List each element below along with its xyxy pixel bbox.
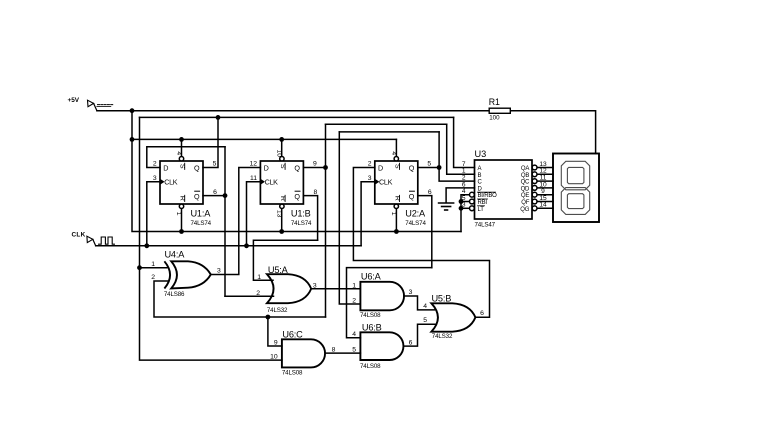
wire QbarA to U5:A pin 2 bbox=[225, 295, 274, 297]
U3 control input bubble bbox=[470, 199, 475, 204]
wire QbarC run to U6:B pin 4 bbox=[347, 268, 432, 338]
wire QB riser bbox=[325, 124, 327, 167]
wire CLK rail bbox=[96, 245, 361, 247]
svg-text:3: 3 bbox=[462, 202, 466, 209]
svg-text:1: 1 bbox=[175, 212, 182, 216]
D flip-flop U1:A (74LS74) bbox=[153, 151, 217, 226]
resistor R1 bbox=[489, 97, 511, 122]
wire QC drop to U6:A pin 2 bbox=[339, 132, 360, 304]
wire S pin drop U1:B bbox=[281, 139, 283, 156]
wire U5:A out to U6:A pin 1 bbox=[311, 288, 360, 290]
OR gate U5:B (74LS32) bbox=[423, 293, 484, 340]
wire R pin riser U1:B bbox=[281, 209, 283, 232]
svg-text:U6:A: U6:A bbox=[361, 271, 382, 281]
U1:A S preset bubble bbox=[179, 157, 183, 161]
junction U1:A Qbar node bbox=[223, 193, 228, 198]
wire U2:A Qbar stub bbox=[418, 196, 432, 268]
wire R pin riser U1:A bbox=[181, 209, 183, 232]
svg-text:3: 3 bbox=[409, 289, 413, 296]
U1:B clock edge triangle bbox=[260, 179, 265, 185]
svg-text:LT: LT bbox=[478, 207, 485, 213]
wire U3 LT stub bbox=[461, 207, 469, 209]
wire U3 QD to display bbox=[537, 187, 553, 189]
U3 control input bubble bbox=[470, 192, 475, 197]
svg-text:12: 12 bbox=[250, 161, 258, 168]
wire QA left drop to U6:C pin 10 bbox=[140, 117, 282, 360]
wire +5V drop to R reset rail bbox=[132, 111, 461, 232]
svg-text:U4:A: U4:A bbox=[165, 249, 186, 259]
wire U3 BI/RBO feed bbox=[461, 195, 469, 232]
svg-text:U5:A: U5:A bbox=[268, 265, 289, 275]
svg-text:Q: Q bbox=[409, 163, 415, 172]
OR gate U5:A (74LS32) bbox=[256, 265, 317, 314]
svg-text:QA: QA bbox=[521, 166, 529, 172]
svg-text:74LS74: 74LS74 bbox=[291, 220, 312, 227]
wire QB down drop bbox=[325, 168, 327, 318]
display body box bbox=[553, 154, 599, 223]
U2:A S preset bubble bbox=[394, 157, 398, 161]
svg-text:4: 4 bbox=[175, 151, 182, 155]
svg-text:74LS32: 74LS32 bbox=[267, 307, 288, 314]
wire U3 QB to display bbox=[537, 173, 553, 175]
svg-text:74LS08: 74LS08 bbox=[360, 312, 381, 319]
AND gate U6:B (74LS08) bbox=[352, 322, 412, 370]
R1 body bbox=[489, 108, 510, 113]
wire U3 QA to display bbox=[537, 167, 553, 169]
svg-text:QG: QG bbox=[520, 207, 529, 213]
wire U1:A Qbar stub bbox=[203, 195, 225, 197]
U5:A gate body bbox=[267, 274, 311, 303]
svg-text:U6:B: U6:B bbox=[362, 322, 382, 332]
svg-text:3: 3 bbox=[217, 268, 221, 275]
wire S pin drop U2:A bbox=[395, 139, 397, 156]
svg-text:5: 5 bbox=[427, 161, 431, 168]
svg-text:U3: U3 bbox=[475, 149, 487, 159]
svg-text:1: 1 bbox=[352, 282, 356, 289]
XOR gate U4:A (74LS86) bbox=[151, 249, 221, 298]
junction S rail tap bbox=[130, 137, 135, 142]
U1:B R reset bubble bbox=[280, 204, 284, 208]
wire U3 QG to display bbox=[537, 207, 553, 209]
svg-text:U2:A: U2:A bbox=[405, 208, 426, 218]
BCD to 7-segment decoder U3 (74LS47) bbox=[462, 149, 547, 228]
svg-text:8: 8 bbox=[332, 347, 336, 354]
svg-text:4: 4 bbox=[352, 331, 356, 338]
junction CLK / U1:A bbox=[144, 243, 149, 248]
U3 control input bubble bbox=[470, 206, 475, 211]
junction U2:A Q node bbox=[437, 165, 442, 170]
wire U3 QF to display bbox=[537, 201, 553, 203]
svg-text:U1:B: U1:B bbox=[291, 208, 311, 218]
svg-text:2: 2 bbox=[151, 274, 155, 281]
wire QbarB run to U5:A pin 1 bbox=[253, 240, 317, 280]
svg-text:CLK: CLK bbox=[265, 178, 279, 187]
U1:A body box bbox=[160, 161, 203, 204]
wire U6:B out to U5:B pin 5 bbox=[404, 324, 436, 346]
wire QbarA top to U1:A D pin 2 bbox=[147, 147, 225, 168]
svg-text:74LS08: 74LS08 bbox=[360, 363, 381, 370]
svg-text:D: D bbox=[378, 163, 383, 172]
svg-text:2: 2 bbox=[256, 290, 260, 297]
U4:A gate body bbox=[171, 261, 211, 288]
wire U1:B Q stub bbox=[304, 167, 326, 169]
svg-text:2: 2 bbox=[368, 161, 372, 168]
svg-text:74LS74: 74LS74 bbox=[405, 220, 426, 227]
svg-text:D: D bbox=[478, 186, 483, 192]
U1:B body box bbox=[260, 161, 303, 204]
svg-text:Q: Q bbox=[294, 163, 300, 172]
svg-text:13: 13 bbox=[276, 210, 283, 218]
junction U1:A S pin bbox=[179, 137, 184, 142]
U1:A R reset bubble bbox=[179, 204, 183, 208]
display digit 8 segments bbox=[561, 161, 589, 190]
svg-text:D: D bbox=[163, 163, 168, 172]
U3 QC output bubble bbox=[532, 179, 537, 184]
svg-text:Q: Q bbox=[294, 192, 300, 201]
svg-text:3: 3 bbox=[153, 175, 157, 182]
svg-text:100: 100 bbox=[489, 115, 500, 122]
svg-text:5: 5 bbox=[423, 317, 427, 324]
wire U3 D pin 6 to ground bbox=[446, 188, 474, 202]
svg-text:2: 2 bbox=[153, 161, 157, 168]
svg-text:74LS74: 74LS74 bbox=[191, 220, 212, 227]
U3 QE output bubble bbox=[532, 192, 537, 197]
svg-text:R1: R1 bbox=[489, 97, 500, 107]
svg-text:6: 6 bbox=[409, 339, 413, 346]
wire QA rail bbox=[140, 116, 454, 118]
svg-text:Q: Q bbox=[409, 192, 415, 201]
svg-text:6: 6 bbox=[480, 310, 484, 317]
svg-text:6: 6 bbox=[428, 189, 432, 196]
U3 QG output bubble bbox=[532, 206, 537, 211]
wire QA to U3 A pin 7 bbox=[454, 117, 475, 167]
svg-text:BI/RBO: BI/RBO bbox=[478, 193, 498, 199]
wire CLK to U1:A pin 3 bbox=[147, 182, 160, 246]
junction U2:A R pin bbox=[394, 229, 399, 234]
junction QA / U4:A pin 1 bbox=[137, 265, 142, 270]
svg-text:3: 3 bbox=[313, 282, 317, 289]
AND gate U6:C (74LS08) bbox=[270, 329, 335, 376]
wire U2:A Q stub bbox=[418, 167, 439, 169]
wire QA branch to U4:A pin 1 bbox=[140, 267, 168, 269]
U3 QD output bubble bbox=[532, 186, 537, 191]
svg-text:14: 14 bbox=[539, 202, 547, 209]
wire U5:B out feedback to U2:A D pin 2 bbox=[353, 168, 489, 318]
wire CLK to U2:A pin 3 bbox=[361, 182, 375, 246]
junction U1:B R pin bbox=[279, 229, 284, 234]
wire U6:C out to U6:B pin 5 bbox=[325, 352, 360, 354]
svg-text:QB: QB bbox=[521, 173, 529, 179]
U1:B S preset bubble bbox=[280, 157, 284, 161]
wire U1:A Q to QA rail bbox=[203, 117, 218, 167]
svg-text:74LS47: 74LS47 bbox=[475, 222, 496, 229]
svg-text:74LS32: 74LS32 bbox=[432, 333, 453, 340]
wire S pin drop U1:A bbox=[181, 139, 183, 156]
junction CLK / U1:B bbox=[244, 243, 249, 248]
svg-text:RBI: RBI bbox=[478, 200, 488, 206]
wire QC rail bbox=[339, 131, 439, 133]
svg-text:74LS08: 74LS08 bbox=[282, 369, 303, 376]
junction U1:B Q node bbox=[323, 165, 328, 170]
svg-text:+5V: +5V bbox=[68, 97, 80, 104]
svg-text:A: A bbox=[478, 166, 482, 172]
svg-text:Q: Q bbox=[194, 163, 200, 172]
svg-text:1: 1 bbox=[390, 212, 397, 216]
U2:A body box bbox=[375, 161, 418, 204]
svg-text:U5:B: U5:B bbox=[432, 293, 452, 303]
U2:A R reset bubble bbox=[394, 204, 398, 208]
AND gate U6:A (74LS08) bbox=[352, 271, 412, 319]
svg-text:CLK: CLK bbox=[72, 232, 86, 239]
U3 QF output bubble bbox=[532, 199, 537, 204]
svg-text:10: 10 bbox=[276, 150, 283, 158]
svg-text:11: 11 bbox=[250, 175, 257, 182]
svg-text:4: 4 bbox=[423, 303, 427, 310]
junction U3 RBI pin 5 bbox=[459, 199, 464, 204]
svg-text:QE: QE bbox=[521, 193, 529, 199]
U2:A clock edge triangle bbox=[375, 179, 380, 185]
7-segment display bbox=[553, 154, 599, 223]
svg-text:10: 10 bbox=[270, 354, 278, 361]
U6:B gate body bbox=[360, 332, 403, 360]
svg-text:74LS86: 74LS86 bbox=[164, 291, 185, 298]
svg-text:U1:A: U1:A bbox=[191, 208, 212, 218]
ground bbox=[439, 203, 454, 210]
wire QB rail bbox=[326, 123, 447, 125]
U5:B gate body bbox=[431, 303, 475, 331]
junction QB / U6:C pin 9 bbox=[266, 315, 271, 320]
svg-text:4: 4 bbox=[390, 151, 397, 155]
wire QB branch to U6:C pin 9 bbox=[268, 317, 282, 346]
wire U6:A out to U5:B pin 4 bbox=[404, 296, 435, 310]
wire QB to U3 B pin 1 bbox=[447, 124, 475, 174]
U3 QB output bubble bbox=[532, 172, 537, 177]
U3 body box bbox=[475, 160, 533, 219]
svg-text:CLK: CLK bbox=[164, 178, 178, 187]
wire R1 to display bbox=[510, 111, 595, 154]
svg-text:2: 2 bbox=[352, 298, 356, 305]
wire +5V rail bbox=[97, 110, 489, 112]
CLK input port symbol with pulse waveform bbox=[72, 232, 115, 246]
svg-text:9: 9 bbox=[274, 340, 278, 347]
U1:A clock edge triangle bbox=[160, 179, 165, 185]
wire U3 QE to display bbox=[537, 194, 553, 196]
wire U1:B Qbar stub bbox=[304, 196, 318, 241]
junction QA rail / U1:A Q bbox=[216, 115, 221, 120]
svg-text:5: 5 bbox=[213, 161, 217, 168]
junction +5V rail / reset feed bbox=[130, 108, 135, 113]
wire QB bottom run to U4:A pin 2 bbox=[154, 281, 326, 317]
svg-text:Q: Q bbox=[194, 192, 200, 201]
svg-text:1: 1 bbox=[257, 274, 261, 281]
wire QbarA vertical bbox=[224, 147, 226, 297]
svg-text:QD: QD bbox=[521, 186, 530, 192]
U6:A gate body bbox=[360, 282, 404, 311]
svg-text:1: 1 bbox=[151, 261, 155, 268]
junction U3 LT pin 3 bbox=[459, 206, 464, 211]
U6:C gate body bbox=[282, 339, 325, 367]
wire U4:A out to U1:B D pin 12 bbox=[211, 168, 260, 275]
D flip-flop U1:B (74LS74) bbox=[250, 150, 318, 227]
svg-text:C: C bbox=[478, 180, 483, 186]
junction U1:A R pin bbox=[179, 229, 184, 234]
junction U1:B S pin bbox=[279, 137, 284, 142]
svg-text:8: 8 bbox=[314, 189, 318, 196]
svg-text:D: D bbox=[264, 163, 269, 172]
wire U3 QC to display bbox=[537, 180, 553, 182]
svg-text:5: 5 bbox=[352, 347, 356, 354]
wire CLK to U1:B pin 11 bbox=[247, 182, 261, 246]
svg-text:B: B bbox=[478, 173, 482, 179]
wire R pin riser U2:A bbox=[395, 209, 397, 232]
D flip-flop U2:A (74LS74) bbox=[368, 151, 432, 226]
wire S preset rail bbox=[132, 138, 396, 140]
svg-text:QC: QC bbox=[521, 180, 530, 186]
svg-text:9: 9 bbox=[313, 161, 317, 168]
svg-text:U6:C: U6:C bbox=[282, 329, 303, 339]
+5V power port symbol bbox=[68, 97, 113, 111]
svg-text:CLK: CLK bbox=[379, 178, 393, 187]
wire U3 RBI stub bbox=[461, 201, 469, 203]
wire QC riser bbox=[438, 132, 440, 168]
svg-text:3: 3 bbox=[368, 175, 372, 182]
svg-text:QF: QF bbox=[521, 200, 529, 206]
U3 QA output bubble bbox=[532, 165, 537, 170]
svg-text:6: 6 bbox=[213, 189, 217, 196]
wire QC to U3 C pin 2 bbox=[439, 168, 474, 182]
